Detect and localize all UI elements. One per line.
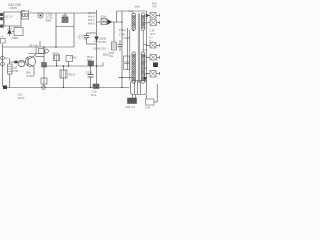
- svg-text:M+b: M+b: [135, 5, 141, 9]
- svg-text:C06: C06: [145, 106, 151, 110]
- svg-text:D801: D801: [12, 36, 19, 40]
- svg-text:Pulse: Pulse: [119, 28, 126, 32]
- svg-text:D -: D -: [150, 39, 154, 43]
- svg-text:AC IN: AC IN: [5, 15, 12, 19]
- svg-text:R604: R604: [53, 51, 60, 55]
- svg-text:18-21: 18-21: [18, 96, 26, 100]
- svg-text:4B9: 4B9: [21, 10, 26, 13]
- svg-text:A52B C06: A52B C06: [93, 46, 106, 50]
- svg-text:MW: MW: [62, 13, 67, 17]
- svg-text:1C06: 1C06: [99, 40, 106, 44]
- svg-text:MA-8: MA-8: [88, 21, 95, 25]
- svg-text:C868: C868: [123, 36, 130, 40]
- svg-text:E -: E -: [150, 35, 153, 39]
- svg-text:+C: +C: [5, 56, 9, 60]
- svg-text:C605: C605: [70, 56, 77, 60]
- svg-text:C1815: C1815: [26, 74, 35, 78]
- svg-text:C616: C616: [86, 71, 93, 75]
- svg-text:: C: : C: [76, 35, 80, 39]
- svg-text:EQ+: EQ+: [101, 15, 107, 19]
- svg-text:R615: R615: [69, 73, 76, 77]
- svg-text:C869: C869: [10, 6, 18, 10]
- svg-text:0.5R: 0.5R: [13, 69, 19, 73]
- svg-text:C06 1/4: C06 1/4: [125, 105, 135, 109]
- svg-text:4.7-25: 4.7-25: [79, 37, 87, 41]
- svg-text:82K: 82K: [87, 58, 92, 62]
- svg-text:A#01: A#01: [46, 19, 53, 23]
- svg-text:B25+: B25+: [103, 52, 110, 56]
- svg-text:1W: 1W: [109, 54, 114, 58]
- svg-text:B+1: B+1: [92, 93, 97, 97]
- svg-text:C B-: C B-: [150, 29, 155, 33]
- svg-text:+5V: +5V: [152, 5, 157, 9]
- svg-text:10 6-: 10 6-: [150, 32, 156, 36]
- svg-text:+C: +C: [0, 35, 4, 39]
- svg-text:35.4 W: 35.4 W: [29, 44, 38, 48]
